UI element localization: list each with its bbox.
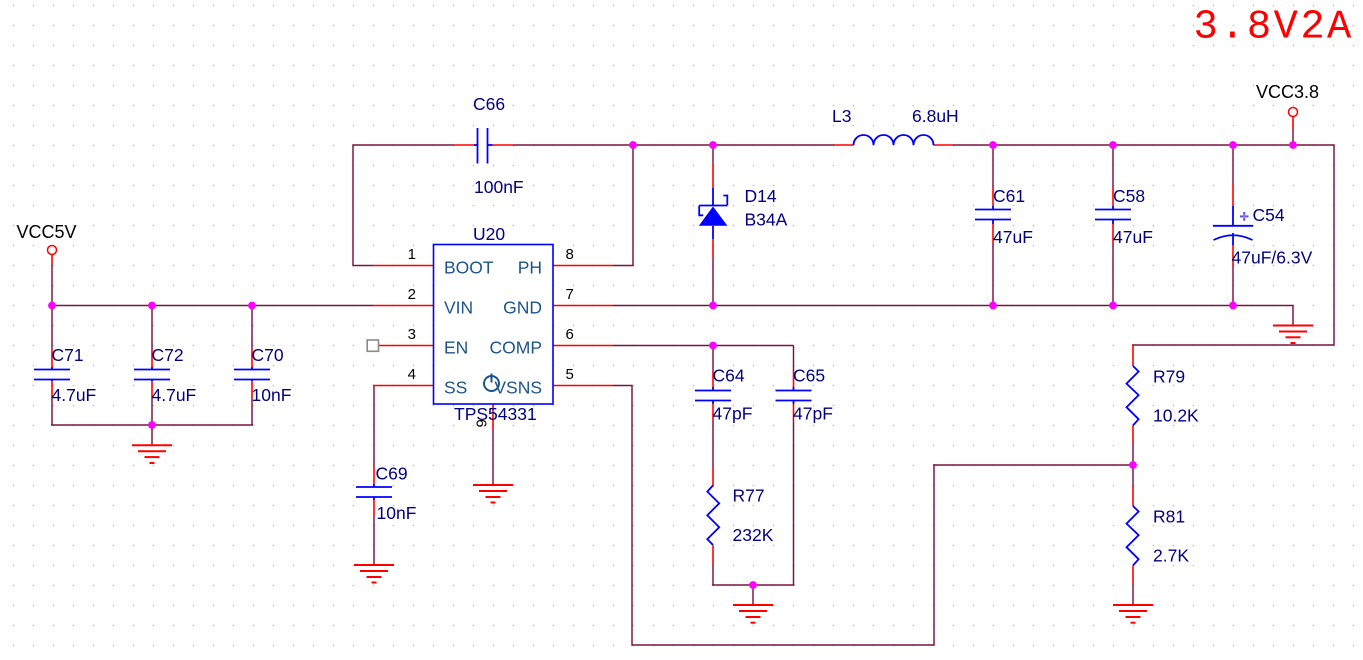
svg-text:COMP: COMP [490, 338, 543, 358]
svg-text:R79: R79 [1153, 367, 1185, 387]
svg-text:232K: 232K [733, 525, 774, 545]
svg-text:B34A: B34A [745, 209, 788, 229]
svg-text:47uF: 47uF [993, 227, 1033, 247]
svg-text:VIN: VIN [444, 298, 473, 318]
svg-text:C61: C61 [993, 186, 1025, 206]
svg-text:10nF: 10nF [377, 503, 417, 523]
svg-text:3.8V2A: 3.8V2A [1194, 5, 1354, 51]
svg-text:8: 8 [566, 246, 574, 263]
svg-text:D14: D14 [745, 186, 777, 206]
svg-text:VCC3.8: VCC3.8 [1256, 82, 1319, 102]
svg-text:C66: C66 [473, 94, 505, 114]
svg-text:6: 6 [566, 326, 574, 343]
svg-text:C64: C64 [713, 366, 745, 386]
svg-text:7: 7 [566, 286, 574, 303]
svg-text:47pF: 47pF [713, 404, 753, 424]
svg-text:10.2K: 10.2K [1153, 406, 1199, 426]
svg-text:4: 4 [408, 366, 416, 383]
svg-text:4.7uF: 4.7uF [52, 385, 97, 405]
svg-text:C58: C58 [1113, 186, 1145, 206]
svg-text:EN: EN [444, 338, 468, 358]
svg-text:C54: C54 [1253, 205, 1285, 225]
svg-text:6.8uH: 6.8uH [912, 106, 959, 126]
svg-text:2: 2 [408, 286, 416, 303]
svg-text:47uF: 47uF [1113, 227, 1153, 247]
svg-text:2.7K: 2.7K [1153, 546, 1189, 566]
svg-text:VSNS: VSNS [494, 378, 542, 398]
svg-text:5: 5 [566, 366, 574, 383]
svg-text:C65: C65 [793, 366, 825, 386]
svg-text:L3: L3 [832, 106, 851, 126]
svg-text:VCC5V: VCC5V [17, 222, 77, 242]
svg-text:U20: U20 [473, 224, 505, 244]
svg-text:C71: C71 [52, 345, 84, 365]
svg-text:3: 3 [408, 326, 416, 343]
svg-text:10nF: 10nF [252, 385, 292, 405]
svg-text:TPS54331: TPS54331 [454, 404, 537, 424]
svg-text:47pF: 47pF [793, 404, 833, 424]
svg-text:BOOT: BOOT [444, 258, 494, 278]
svg-text:R81: R81 [1153, 507, 1185, 527]
svg-text:C72: C72 [152, 345, 184, 365]
svg-text:100nF: 100nF [474, 177, 524, 197]
svg-text:PH: PH [518, 258, 542, 278]
svg-text:R77: R77 [733, 486, 765, 506]
svg-text:C70: C70 [252, 345, 284, 365]
svg-text:47uF/6.3V: 47uF/6.3V [1232, 248, 1313, 268]
svg-text:9: 9 [474, 419, 491, 427]
svg-text:1: 1 [408, 246, 416, 263]
svg-text:4.7uF: 4.7uF [152, 385, 197, 405]
svg-text:GND: GND [503, 298, 542, 318]
svg-text:SS: SS [444, 378, 467, 398]
svg-text:C69: C69 [376, 464, 408, 484]
